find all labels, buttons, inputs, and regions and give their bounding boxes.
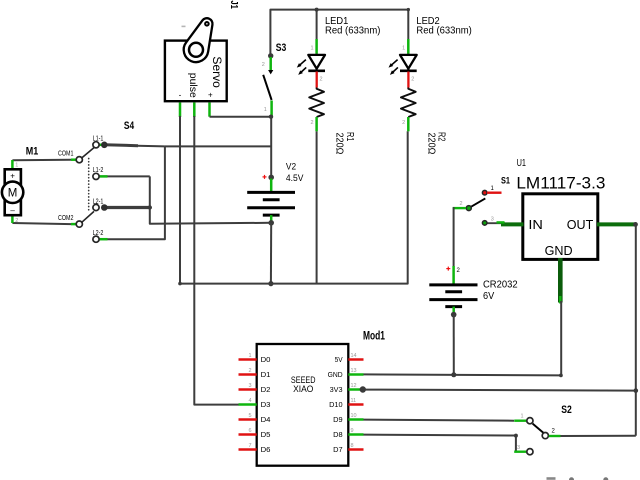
svg-text:L1-1: L1-1 xyxy=(93,136,104,143)
svg-text:S3: S3 xyxy=(276,42,287,54)
svg-text:2: 2 xyxy=(15,218,18,224)
resistor R1 xyxy=(309,88,324,132)
S4 contact L1-2 xyxy=(100,175,108,178)
wire D9 to S2 pin1 xyxy=(364,420,515,421)
svg-text:S1: S1 xyxy=(501,175,511,186)
voltage regulator U1 xyxy=(523,194,598,260)
Mod1 pin 8 D7 xyxy=(348,448,363,451)
svg-text:7: 7 xyxy=(248,443,251,449)
module Mod1 SEEED XIAO xyxy=(257,344,349,466)
LED2 xyxy=(389,39,417,88)
Mod1 pin 14 5V xyxy=(348,358,363,361)
svg-text:220Ω: 220Ω xyxy=(425,133,436,155)
V2 plus mark xyxy=(263,176,267,178)
wire top rail S3 to LED2 xyxy=(270,10,408,56)
S4 contact COM1 xyxy=(71,158,76,161)
svg-text:220Ω: 220Ω xyxy=(334,133,345,155)
Mod1 pin 3 D2 xyxy=(239,388,257,391)
svg-text:L1-2: L1-2 xyxy=(93,167,104,174)
svg-text:5V: 5V xyxy=(335,355,343,364)
node V2 plus xyxy=(268,175,274,181)
svg-text:-: - xyxy=(179,91,182,100)
wire D8 to S2 pin3 xyxy=(364,435,516,452)
svg-text:1: 1 xyxy=(15,163,18,169)
svg-text:S2: S2 xyxy=(561,404,572,416)
node CR2032 gnd junction xyxy=(451,372,456,377)
svg-text:2: 2 xyxy=(310,120,313,126)
wire L2-1 right thick xyxy=(104,206,150,209)
wire R1 bottom to rail xyxy=(316,131,318,283)
svg-text:2: 2 xyxy=(320,77,323,83)
node gnd corner xyxy=(559,374,563,378)
motor M1 xyxy=(2,160,23,224)
svg-text:1: 1 xyxy=(264,107,267,113)
bottom edge fragment dot B xyxy=(603,477,608,480)
LED1 emission arrows xyxy=(299,60,305,66)
svg-text:D3: D3 xyxy=(261,400,271,409)
svg-text:12: 12 xyxy=(351,383,357,389)
wire servo plus to S3 bottom xyxy=(210,116,272,118)
wire M1 plus to COM1 xyxy=(12,159,71,162)
node S3 bottom corner xyxy=(269,115,273,119)
svg-text:M1: M1 xyxy=(26,146,39,158)
svg-text:Servo: Servo xyxy=(210,56,224,88)
servo horn xyxy=(184,18,213,62)
svg-text:S4: S4 xyxy=(124,120,135,132)
S4 contact L1-1 xyxy=(99,144,102,147)
svg-text:XIAO: XIAO xyxy=(293,384,313,395)
svg-text:D0: D0 xyxy=(261,355,271,364)
wire U1 OUT down right edge xyxy=(635,224,637,435)
svg-text:D7: D7 xyxy=(333,445,343,454)
svg-text:2: 2 xyxy=(402,120,405,126)
wire V2 minus down to gnd rail xyxy=(270,223,272,284)
bottom edge fragment dash xyxy=(547,477,556,480)
node 3V3 right junction xyxy=(634,388,639,393)
Mod1 pin 2 D1 xyxy=(239,373,257,376)
S4 contact COM2 xyxy=(71,223,76,226)
node V2 minus rail junction xyxy=(268,281,273,286)
U1 pin OUT xyxy=(597,222,636,226)
svg-text:4: 4 xyxy=(248,398,251,404)
CR2032 plus mark xyxy=(446,268,450,270)
svg-text:pulse: pulse xyxy=(187,73,198,98)
wire servo pulse to D3 xyxy=(194,116,239,405)
servo pin mark xyxy=(182,26,186,28)
svg-text:GND: GND xyxy=(328,370,344,379)
svg-text:GND: GND xyxy=(545,243,573,258)
svg-text:D6: D6 xyxy=(261,445,271,454)
wire S4 L1-1 to V2 plus xyxy=(104,143,138,147)
Mod1 pin 1 D0 xyxy=(239,358,257,361)
resistor R2 xyxy=(401,88,416,132)
wire servo minus to gnd rail xyxy=(179,116,181,284)
svg-text:D8: D8 xyxy=(333,430,343,439)
svg-text:+: + xyxy=(208,91,213,100)
bottom edge fragment dot A xyxy=(569,477,574,480)
svg-text:LM1117-3.3: LM1117-3.3 xyxy=(516,174,605,192)
svg-text:V2: V2 xyxy=(286,162,296,173)
svg-text:1: 1 xyxy=(402,46,405,52)
wire gnd net Mod1 to U1 xyxy=(364,301,562,375)
switch S1 xyxy=(453,186,502,225)
svg-text:1: 1 xyxy=(248,353,251,359)
svg-text:13: 13 xyxy=(351,368,357,374)
svg-text:J1: J1 xyxy=(228,0,240,9)
wire S3 to V2 plus xyxy=(270,117,272,178)
svg-text:D5: D5 xyxy=(261,430,271,439)
LED1 xyxy=(297,39,325,88)
node top rail LED1 junction xyxy=(315,8,319,12)
svg-text:6V: 6V xyxy=(483,291,494,302)
Mod1 pin 11 D10 xyxy=(348,403,363,406)
wire L1-2 right xyxy=(100,175,150,177)
svg-text:10: 10 xyxy=(351,413,357,419)
svg-text:2: 2 xyxy=(460,201,463,207)
svg-text:OUT: OUT xyxy=(567,217,594,232)
svg-text:D4: D4 xyxy=(261,415,271,424)
S4 lever COM2 xyxy=(81,211,94,222)
svg-text:D2: D2 xyxy=(261,385,271,394)
svg-text:Mod1: Mod1 xyxy=(363,330,385,342)
svg-text:M: M xyxy=(8,187,18,199)
switch S4 xyxy=(58,136,108,243)
svg-text:D9: D9 xyxy=(333,415,343,424)
Mod1 pin 5 D4 xyxy=(239,418,257,421)
svg-text:Red (633nm): Red (633nm) xyxy=(325,25,380,36)
svg-text:8: 8 xyxy=(351,443,354,449)
servo pin 2 xyxy=(193,103,196,118)
wire S2 pin2 to right edge xyxy=(560,435,636,437)
switch S3 xyxy=(262,53,274,116)
S4 gang dotted line xyxy=(88,159,90,213)
Mod1 pin 4 D3 xyxy=(239,403,257,406)
wire L1-1 to L2-2 link xyxy=(108,146,165,239)
switch S2 xyxy=(514,414,560,455)
wire 3V3 net xyxy=(363,390,636,391)
wire M1 minus to COM2 xyxy=(12,223,71,224)
wire S1 pin2 to CR2032 plus xyxy=(452,208,455,266)
svg-text:3: 3 xyxy=(248,383,251,389)
node D8 corner xyxy=(514,434,518,438)
Mod1 pin 9 D8 xyxy=(348,433,363,436)
node servo minus rail corner xyxy=(178,282,182,286)
node top rail LED2 corner xyxy=(407,8,410,11)
wire L1-2 down to V2 minus wire xyxy=(150,176,271,223)
Mod1 pin 7 D6 xyxy=(239,448,257,451)
svg-text:L2-1: L2-1 xyxy=(93,198,104,205)
svg-text:Red (633nm): Red (633nm) xyxy=(416,25,471,36)
servo pin 1 xyxy=(179,103,182,118)
wire CR2032 minus to gnd net xyxy=(453,315,455,375)
servo J1 body xyxy=(165,41,227,102)
svg-text:COM2: COM2 xyxy=(58,215,74,222)
svg-text:2: 2 xyxy=(248,368,251,374)
battery CR2032 xyxy=(429,285,477,318)
svg-text:COM1: COM1 xyxy=(58,151,74,158)
svg-text:1: 1 xyxy=(310,46,313,52)
svg-text:5: 5 xyxy=(248,413,251,419)
wire LED1 top drop xyxy=(316,10,318,39)
svg-text:–: – xyxy=(10,206,15,215)
LED2 emission arrows xyxy=(391,60,397,66)
battery V2 xyxy=(247,175,295,226)
svg-text:+: + xyxy=(10,171,15,180)
node L2-1 junction xyxy=(148,205,152,209)
U1 pin IN xyxy=(486,222,505,224)
svg-text:2: 2 xyxy=(411,77,414,83)
svg-text:3: 3 xyxy=(491,217,494,223)
svg-text:2: 2 xyxy=(262,62,265,68)
node 3V3 pin dot xyxy=(360,386,366,392)
svg-text:6: 6 xyxy=(248,428,251,434)
Mod1 pin 13 GND xyxy=(348,373,363,376)
svg-text:9: 9 xyxy=(351,428,354,434)
svg-text:CR2032: CR2032 xyxy=(483,280,518,291)
svg-text:U1: U1 xyxy=(517,158,527,169)
U1 pin GND xyxy=(558,258,563,303)
Mod1 pin 12 3V3 xyxy=(348,388,363,391)
svg-text:D10: D10 xyxy=(329,400,343,409)
S4 contact L2-1 xyxy=(93,204,99,210)
S4 lever COM1 xyxy=(81,148,94,159)
svg-text:1: 1 xyxy=(521,414,524,420)
svg-text:3: 3 xyxy=(517,445,520,451)
servo pin 3 xyxy=(208,103,211,117)
wire gnd rail xyxy=(180,131,408,283)
Mod1 pin 10 D9 xyxy=(348,418,363,421)
svg-text:4.5V: 4.5V xyxy=(286,173,304,184)
svg-text:L2-2: L2-2 xyxy=(93,230,104,237)
svg-text:14: 14 xyxy=(351,353,357,359)
svg-text:3V3: 3V3 xyxy=(330,385,343,394)
svg-text:IN: IN xyxy=(528,217,543,232)
S4 contact L2-2 xyxy=(100,238,108,241)
Mod1 pin 6 D5 xyxy=(239,433,257,436)
svg-text:D1: D1 xyxy=(261,370,271,379)
svg-text:11: 11 xyxy=(351,398,357,404)
